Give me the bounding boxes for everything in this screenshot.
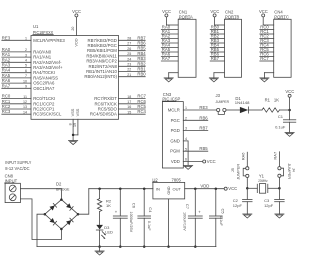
svg-text:16: 16 bbox=[127, 105, 131, 109]
svg-text:VDD: VDD bbox=[200, 183, 209, 188]
wire net RB3 to CN2 bbox=[210, 42, 224, 44]
junction bridge AC2 corner bbox=[60, 228, 63, 231]
svg-text:PGM: PGM bbox=[170, 149, 180, 154]
bridge diode bottom-left bbox=[49, 218, 56, 225]
wire U2 GND to ground rail bbox=[168, 199, 170, 247]
junction OSC1 node bbox=[246, 187, 249, 190]
wire U1 pin 3 (RA1/AN1) to net RA1 bbox=[2, 56, 31, 58]
svg-text:RC3/SCK/SCL: RC3/SCK/SCL bbox=[33, 112, 62, 117]
wire R1 to VCC node bbox=[279, 109, 289, 111]
junction C7 top bbox=[194, 187, 197, 190]
svg-text:22: 22 bbox=[127, 68, 131, 72]
wire CN3 PGM (net RB5) bbox=[183, 150, 208, 152]
svg-text:BRIDGE: BRIDGE bbox=[56, 186, 70, 191]
svg-text:9: 9 bbox=[25, 85, 27, 89]
svg-text:OSC1/RA7: OSC1/RA7 bbox=[33, 86, 55, 91]
power VCC port at CN4 bbox=[259, 9, 268, 17]
wire bridge DC- to ground rail bbox=[37, 214, 45, 246]
wire CN1 ground pin bbox=[169, 72, 179, 74]
svg-text:26: 26 bbox=[127, 47, 131, 51]
svg-text:JUMPER: JUMPER bbox=[216, 99, 230, 104]
svg-text:GND: GND bbox=[170, 138, 179, 143]
wire net RA1 to CN1 bbox=[161, 33, 178, 35]
svg-text:14: 14 bbox=[23, 110, 27, 114]
svg-text:C5: C5 bbox=[221, 208, 226, 214]
wire U1 VSS pin 8 to ground bbox=[72, 119, 74, 140]
svg-text:MCLR/VPP/RE3: MCLR/VPP/RE3 bbox=[33, 38, 65, 43]
svg-text:7: 7 bbox=[25, 74, 27, 78]
svg-text:20: 20 bbox=[71, 27, 75, 31]
wire net RA2 to CN1 bbox=[161, 38, 178, 40]
svg-text:RC4: RC4 bbox=[137, 109, 146, 114]
junction C7 bottom bbox=[194, 245, 197, 248]
svg-text:VCC: VCC bbox=[228, 186, 237, 191]
bridge diode top-right bbox=[66, 203, 73, 210]
svg-text:18: 18 bbox=[127, 95, 131, 99]
power VCC port at R1 bbox=[285, 89, 294, 97]
svg-text:0.1uF: 0.1uF bbox=[219, 216, 223, 226]
wire net RB7 to CN2 bbox=[210, 60, 224, 62]
wire net RA0 to CN1 bbox=[161, 29, 178, 31]
ground at C1 bbox=[285, 132, 294, 136]
svg-text:RE3: RE3 bbox=[2, 35, 11, 40]
wire CN3 GND pin bbox=[183, 140, 188, 142]
wire net RC2 to CN4 bbox=[260, 38, 274, 40]
wire CN3 VDD to VCC bbox=[183, 161, 202, 163]
svg-text:6: 6 bbox=[25, 69, 27, 73]
wire CN8 pin1 to bridge AC1 bbox=[20, 188, 61, 190]
wire +V rail to U2 IN bbox=[89, 188, 153, 190]
wire node to C3 bbox=[278, 188, 280, 199]
U2 body bbox=[153, 182, 185, 199]
svg-text:1: 1 bbox=[185, 106, 187, 110]
svg-text:RA7: RA7 bbox=[273, 151, 278, 160]
svg-text:RB5: RB5 bbox=[199, 146, 208, 151]
ground at CN4 bbox=[260, 78, 269, 82]
svg-text:J3: J3 bbox=[216, 93, 221, 98]
svg-text:12pF: 12pF bbox=[264, 203, 274, 208]
wire U1 pin 18 (RC7/RX/DT) to net RC7 bbox=[119, 98, 146, 100]
wire U1 pin 12 (RC1/CCP2) to net RC1 bbox=[2, 103, 31, 105]
junction bridge AC1 corner bbox=[60, 198, 63, 201]
svg-text:8-12 VAC/DC: 8-12 VAC/DC bbox=[5, 166, 29, 171]
junction C5 top bbox=[215, 187, 218, 190]
wire U1 pin 27 (RB6/KBI2/PGC) to net RB6 bbox=[119, 45, 146, 47]
svg-text:INPUT SUPPLY: INPUT SUPPLY bbox=[5, 160, 31, 165]
wire U1 pin 5 (RA3/AN3/Vref+) to net RA3 bbox=[2, 67, 31, 69]
wire bridge DC+ riser bbox=[78, 189, 89, 215]
wire CN8 pin2 to bridge AC2 bbox=[20, 199, 61, 240]
ground at CN2 bbox=[209, 78, 218, 82]
CN4 connector body bbox=[274, 19, 291, 77]
svg-text:RB7: RB7 bbox=[211, 56, 220, 61]
wire U1 pin 15 (RC4/SDI/SDA) to net RC4 bbox=[119, 113, 146, 115]
junction C4 bottom bbox=[143, 245, 146, 248]
bridge diode bottom-right bbox=[66, 218, 73, 225]
svg-text:RC3: RC3 bbox=[2, 109, 11, 114]
svg-text:C6: C6 bbox=[132, 203, 137, 209]
svg-text:21: 21 bbox=[127, 73, 131, 77]
svg-text:5: 5 bbox=[185, 147, 187, 151]
svg-text:LED: LED bbox=[105, 229, 113, 234]
svg-text:J5: J5 bbox=[230, 168, 235, 172]
junction C6 bottom bbox=[119, 245, 122, 248]
wire C1 to ground bbox=[289, 122, 291, 132]
wire U1 pin 2 (RA0/AN0) to net RA0 bbox=[2, 51, 31, 53]
svg-text:RB6: RB6 bbox=[199, 115, 208, 120]
svg-text:4: 4 bbox=[25, 59, 27, 63]
svg-text:GND: GND bbox=[167, 186, 171, 195]
wire RA6 to J5 bbox=[246, 152, 248, 167]
bridge diode top-left bbox=[49, 203, 56, 210]
svg-text:5: 5 bbox=[25, 64, 27, 68]
wire net RB1 to CN2 bbox=[210, 33, 224, 35]
svg-text:0.1uF: 0.1uF bbox=[275, 125, 286, 130]
svg-text:PIC18FXXX: PIC18FXXX bbox=[33, 30, 53, 35]
svg-text:3: 3 bbox=[185, 127, 187, 131]
junction R2 top bbox=[98, 187, 101, 190]
svg-text:17: 17 bbox=[127, 100, 131, 104]
svg-text:1N4148: 1N4148 bbox=[235, 100, 250, 105]
junction U2 GND/rail bbox=[167, 245, 170, 248]
wire U1 pin 24 (RB3/AN9/CCP2) to net RB3 bbox=[119, 60, 146, 62]
LED arrows bbox=[102, 232, 106, 239]
svg-text:RB0: RB0 bbox=[137, 72, 146, 77]
svg-text:VCC: VCC bbox=[285, 89, 294, 94]
capacitor C6 1000uF/25V bbox=[119, 189, 121, 216]
wire net RC6 to CN4 bbox=[260, 56, 274, 58]
wire U1 pin 14 (RC3/SCK/SCL) to net RC3 bbox=[2, 113, 31, 115]
svg-text:RA6: RA6 bbox=[240, 152, 245, 161]
wire net RB2 to CN2 bbox=[210, 38, 224, 40]
wire C2 to ground bbox=[246, 202, 248, 214]
svg-text:1: 1 bbox=[25, 37, 27, 41]
wire net RC3 to CN4 bbox=[260, 42, 274, 44]
svg-text:28: 28 bbox=[127, 37, 131, 41]
ground at C3 bbox=[275, 214, 284, 218]
wire net RB0 to CN2 bbox=[210, 29, 224, 31]
svg-text:RB7: RB7 bbox=[199, 126, 208, 131]
capacitor C7 100uF/16V bbox=[194, 189, 196, 216]
wire net RC4 to CN4 bbox=[260, 47, 274, 49]
power VCC port at CN2 bbox=[210, 9, 219, 17]
wire U1 pin 22 (RB1/INT1/AN10) to net RB1 bbox=[119, 71, 146, 73]
svg-text:R1: R1 bbox=[265, 98, 271, 103]
svg-text:U1: U1 bbox=[33, 24, 39, 29]
svg-text:INPUT: INPUT bbox=[5, 178, 18, 183]
svg-text:RC4/SDI/SDA: RC4/SDI/SDA bbox=[90, 112, 117, 117]
svg-text:20MHz: 20MHz bbox=[258, 178, 267, 183]
wire down to C1 bbox=[289, 110, 291, 120]
svg-text:PIC ICSP: PIC ICSP bbox=[162, 96, 180, 101]
ground at C2 bbox=[243, 214, 252, 218]
svg-text:13: 13 bbox=[23, 105, 27, 109]
svg-text:VCC: VCC bbox=[72, 9, 81, 14]
wire U1 pin 23 (RB2/INT2/AN8) to net RB2 bbox=[119, 65, 146, 67]
svg-text:VDD: VDD bbox=[171, 159, 180, 164]
wire U1 pin 28 (RB7/KBI3/PGD) to net RB7 bbox=[119, 39, 146, 41]
ground at CN3 bbox=[184, 165, 193, 169]
junction bridge DC- corner bbox=[44, 213, 47, 216]
svg-text:VCC: VCC bbox=[259, 9, 268, 14]
wire CN4 ground pin bbox=[264, 72, 273, 74]
svg-text:RA7: RA7 bbox=[2, 83, 11, 88]
wire net RC7 to CN4 bbox=[260, 60, 274, 62]
svg-text:100uF/16V: 100uF/16V bbox=[183, 212, 187, 231]
wire J5 to crystal node bbox=[246, 178, 248, 189]
svg-text:27: 27 bbox=[127, 42, 131, 46]
svg-text:6: 6 bbox=[185, 158, 187, 162]
svg-text:PGD: PGD bbox=[171, 128, 180, 133]
wire rail to ground symbol bbox=[99, 247, 101, 251]
wire U1 pin 17 (RC6/TX/CK) to net RC6 bbox=[119, 103, 146, 105]
wire U1 pin 9 (OSC1/RA7) to net RA7 bbox=[2, 87, 31, 89]
wire net RA5 to CN1 bbox=[161, 51, 178, 53]
wire VCC down to CN1 pin 1 bbox=[165, 17, 167, 25]
wire CN3 MCLR to J3 (net RE3) bbox=[183, 109, 216, 111]
svg-text:7805: 7805 bbox=[172, 177, 182, 182]
svg-text:1K: 1K bbox=[106, 203, 111, 208]
svg-text:RC7: RC7 bbox=[260, 56, 269, 61]
junction bridge DC+ corner bbox=[77, 213, 80, 216]
svg-text:23: 23 bbox=[127, 63, 131, 67]
svg-text:RE3: RE3 bbox=[199, 105, 208, 110]
wire net RB5 to CN2 bbox=[210, 51, 224, 53]
svg-text:VCC: VCC bbox=[207, 159, 216, 164]
wire net RA3 to CN1 bbox=[161, 42, 178, 44]
wire J3 to D1 bbox=[226, 109, 240, 111]
svg-text:8: 8 bbox=[68, 123, 72, 125]
svg-text:VSS: VSS bbox=[75, 108, 80, 116]
wire U1 VSS pin 19 down bbox=[77, 119, 79, 135]
wire node to C2 bbox=[246, 188, 248, 199]
svg-text:MCLR: MCLR bbox=[168, 108, 180, 113]
wire CN3 PGD (net RB7) bbox=[183, 130, 208, 132]
svg-text:15: 15 bbox=[127, 110, 131, 114]
capacitor C4 0.1uF bbox=[143, 189, 145, 216]
svg-text:RA7: RA7 bbox=[162, 56, 171, 61]
power VCC port at U2 OUT bbox=[224, 186, 237, 191]
junction C6 top bbox=[119, 187, 122, 190]
wire U1 pin 6 (RA4/T0CKI) to net RA4 bbox=[2, 72, 31, 74]
wire CN2 ground pin bbox=[214, 72, 225, 74]
ground at CN1 bbox=[164, 78, 173, 82]
wire Y1 to OSC2 node bbox=[268, 187, 280, 189]
svg-text:IN: IN bbox=[156, 186, 160, 191]
junction OSC2 node bbox=[278, 187, 281, 190]
svg-text:2: 2 bbox=[185, 116, 187, 120]
wire net RA6 to CN1 bbox=[161, 56, 178, 58]
wire U1 pin 4 (RA2/AN2/Vref-) to net RA2 bbox=[2, 61, 31, 63]
junction D3/ground rail bbox=[98, 245, 101, 248]
wire net RA4 to CN1 bbox=[161, 47, 178, 49]
svg-text:VCC: VCC bbox=[162, 9, 171, 14]
svg-text:4: 4 bbox=[185, 137, 187, 141]
wire net RC5 to CN4 bbox=[260, 51, 274, 53]
wire ground rail bbox=[37, 246, 216, 248]
wire up to VCC bbox=[289, 97, 291, 110]
power VCC port above U1 bbox=[72, 9, 81, 17]
wire VCC to U1 VDD pin 20 bbox=[75, 17, 77, 36]
wire U1 pin 16 (RC5/SDO) to net RC5 bbox=[119, 108, 146, 110]
svg-text:RB0/AN12(INT0): RB0/AN12(INT0) bbox=[84, 74, 117, 79]
svg-text:VCC: VCC bbox=[210, 9, 219, 14]
ground below U1 bbox=[69, 141, 78, 145]
CN1 connector body bbox=[178, 19, 196, 77]
wire net RA7 to CN1 bbox=[161, 60, 178, 62]
wire CN3 PGC (net RB6) bbox=[183, 119, 208, 121]
svg-text:3: 3 bbox=[25, 53, 27, 57]
wire net RB4 to CN2 bbox=[210, 47, 224, 49]
svg-text:12: 12 bbox=[23, 100, 27, 104]
svg-text:JUMPER: JUMPER bbox=[236, 164, 241, 180]
junction VSS pins bbox=[72, 134, 75, 137]
power VCC port at CN3 VDD bbox=[203, 159, 216, 164]
wire D1 to R1 bbox=[248, 109, 262, 111]
svg-text:25: 25 bbox=[127, 52, 131, 56]
svg-text:24: 24 bbox=[127, 57, 131, 61]
svg-text:C1: C1 bbox=[278, 114, 284, 119]
wire net RC1 to CN4 bbox=[260, 33, 274, 35]
capacitor C5 0.1uF bbox=[215, 189, 217, 216]
svg-text:1K: 1K bbox=[274, 98, 279, 103]
wire net RC0 to CN4 bbox=[260, 29, 274, 31]
U1 PIC18FXXX chip body bbox=[31, 36, 119, 120]
wire U1 pin 1 (MCLR/VPP/RE3) to net RE3 bbox=[2, 39, 31, 41]
svg-text:10: 10 bbox=[23, 79, 27, 83]
CN3 connector body bbox=[162, 102, 183, 168]
svg-text:VDD: VDD bbox=[74, 38, 79, 46]
wire U1 pin 25 (RB4/KBI0/AN11) to net RB4 bbox=[119, 55, 146, 57]
svg-text:0.1uF: 0.1uF bbox=[147, 221, 151, 231]
wire RA7 to J4 bbox=[278, 152, 280, 167]
wire U1 pin 7 (RA5/AN4/SS) to net RA5 bbox=[2, 77, 31, 79]
wire joining VSS pins bbox=[73, 134, 78, 136]
svg-text:PGC: PGC bbox=[171, 118, 180, 123]
svg-text:1000uF/25V: 1000uF/25V bbox=[129, 211, 133, 232]
wire D3 to ground rail bbox=[99, 230, 101, 247]
wire R2 to D3 bbox=[99, 212, 101, 225]
wire VCC down to CN2 pin 1 bbox=[214, 17, 216, 25]
wire J4 to OSC2 node bbox=[278, 177, 280, 188]
wire U2 OUT to VCC bbox=[185, 188, 224, 190]
wire U1 pin 26 (RB5/KBI1/PGM) to net RB5 bbox=[119, 50, 146, 52]
wire VCC down to CN4 pin 1 bbox=[262, 17, 264, 25]
svg-text:12pF: 12pF bbox=[233, 203, 243, 208]
wire net RB6 to CN2 bbox=[210, 56, 224, 58]
junction R1/C1/VCC bbox=[288, 109, 291, 112]
svg-text:19: 19 bbox=[73, 123, 77, 127]
wire U1 pin 21 (RB0/AN12(INT0)) to net RB0 bbox=[119, 76, 146, 78]
svg-text:JUMPER: JUMPER bbox=[287, 163, 292, 179]
wire U1 pin 13 (RC2/CCP1) to net RC2 bbox=[2, 108, 31, 110]
power VCC port at CN1 bbox=[162, 9, 171, 17]
wire to Y1 bbox=[247, 187, 257, 189]
wire U1 pin 10 (OSC2/RA6) to net RA6 bbox=[2, 82, 31, 84]
svg-text:OUT: OUT bbox=[173, 186, 182, 191]
svg-text:C4: C4 bbox=[148, 207, 153, 213]
wire U1 pin 11 (RC0/T1CKI) to net RC0 bbox=[2, 98, 31, 100]
ground main rail bbox=[95, 251, 104, 255]
CN2 connector body bbox=[224, 19, 241, 77]
wire C3 to ground bbox=[278, 202, 280, 214]
svg-text:2: 2 bbox=[25, 48, 27, 52]
CN8 connector body bbox=[5, 183, 20, 202]
svg-text:11: 11 bbox=[23, 95, 27, 99]
junction C4 top bbox=[143, 187, 146, 190]
svg-text:C7: C7 bbox=[185, 204, 190, 210]
